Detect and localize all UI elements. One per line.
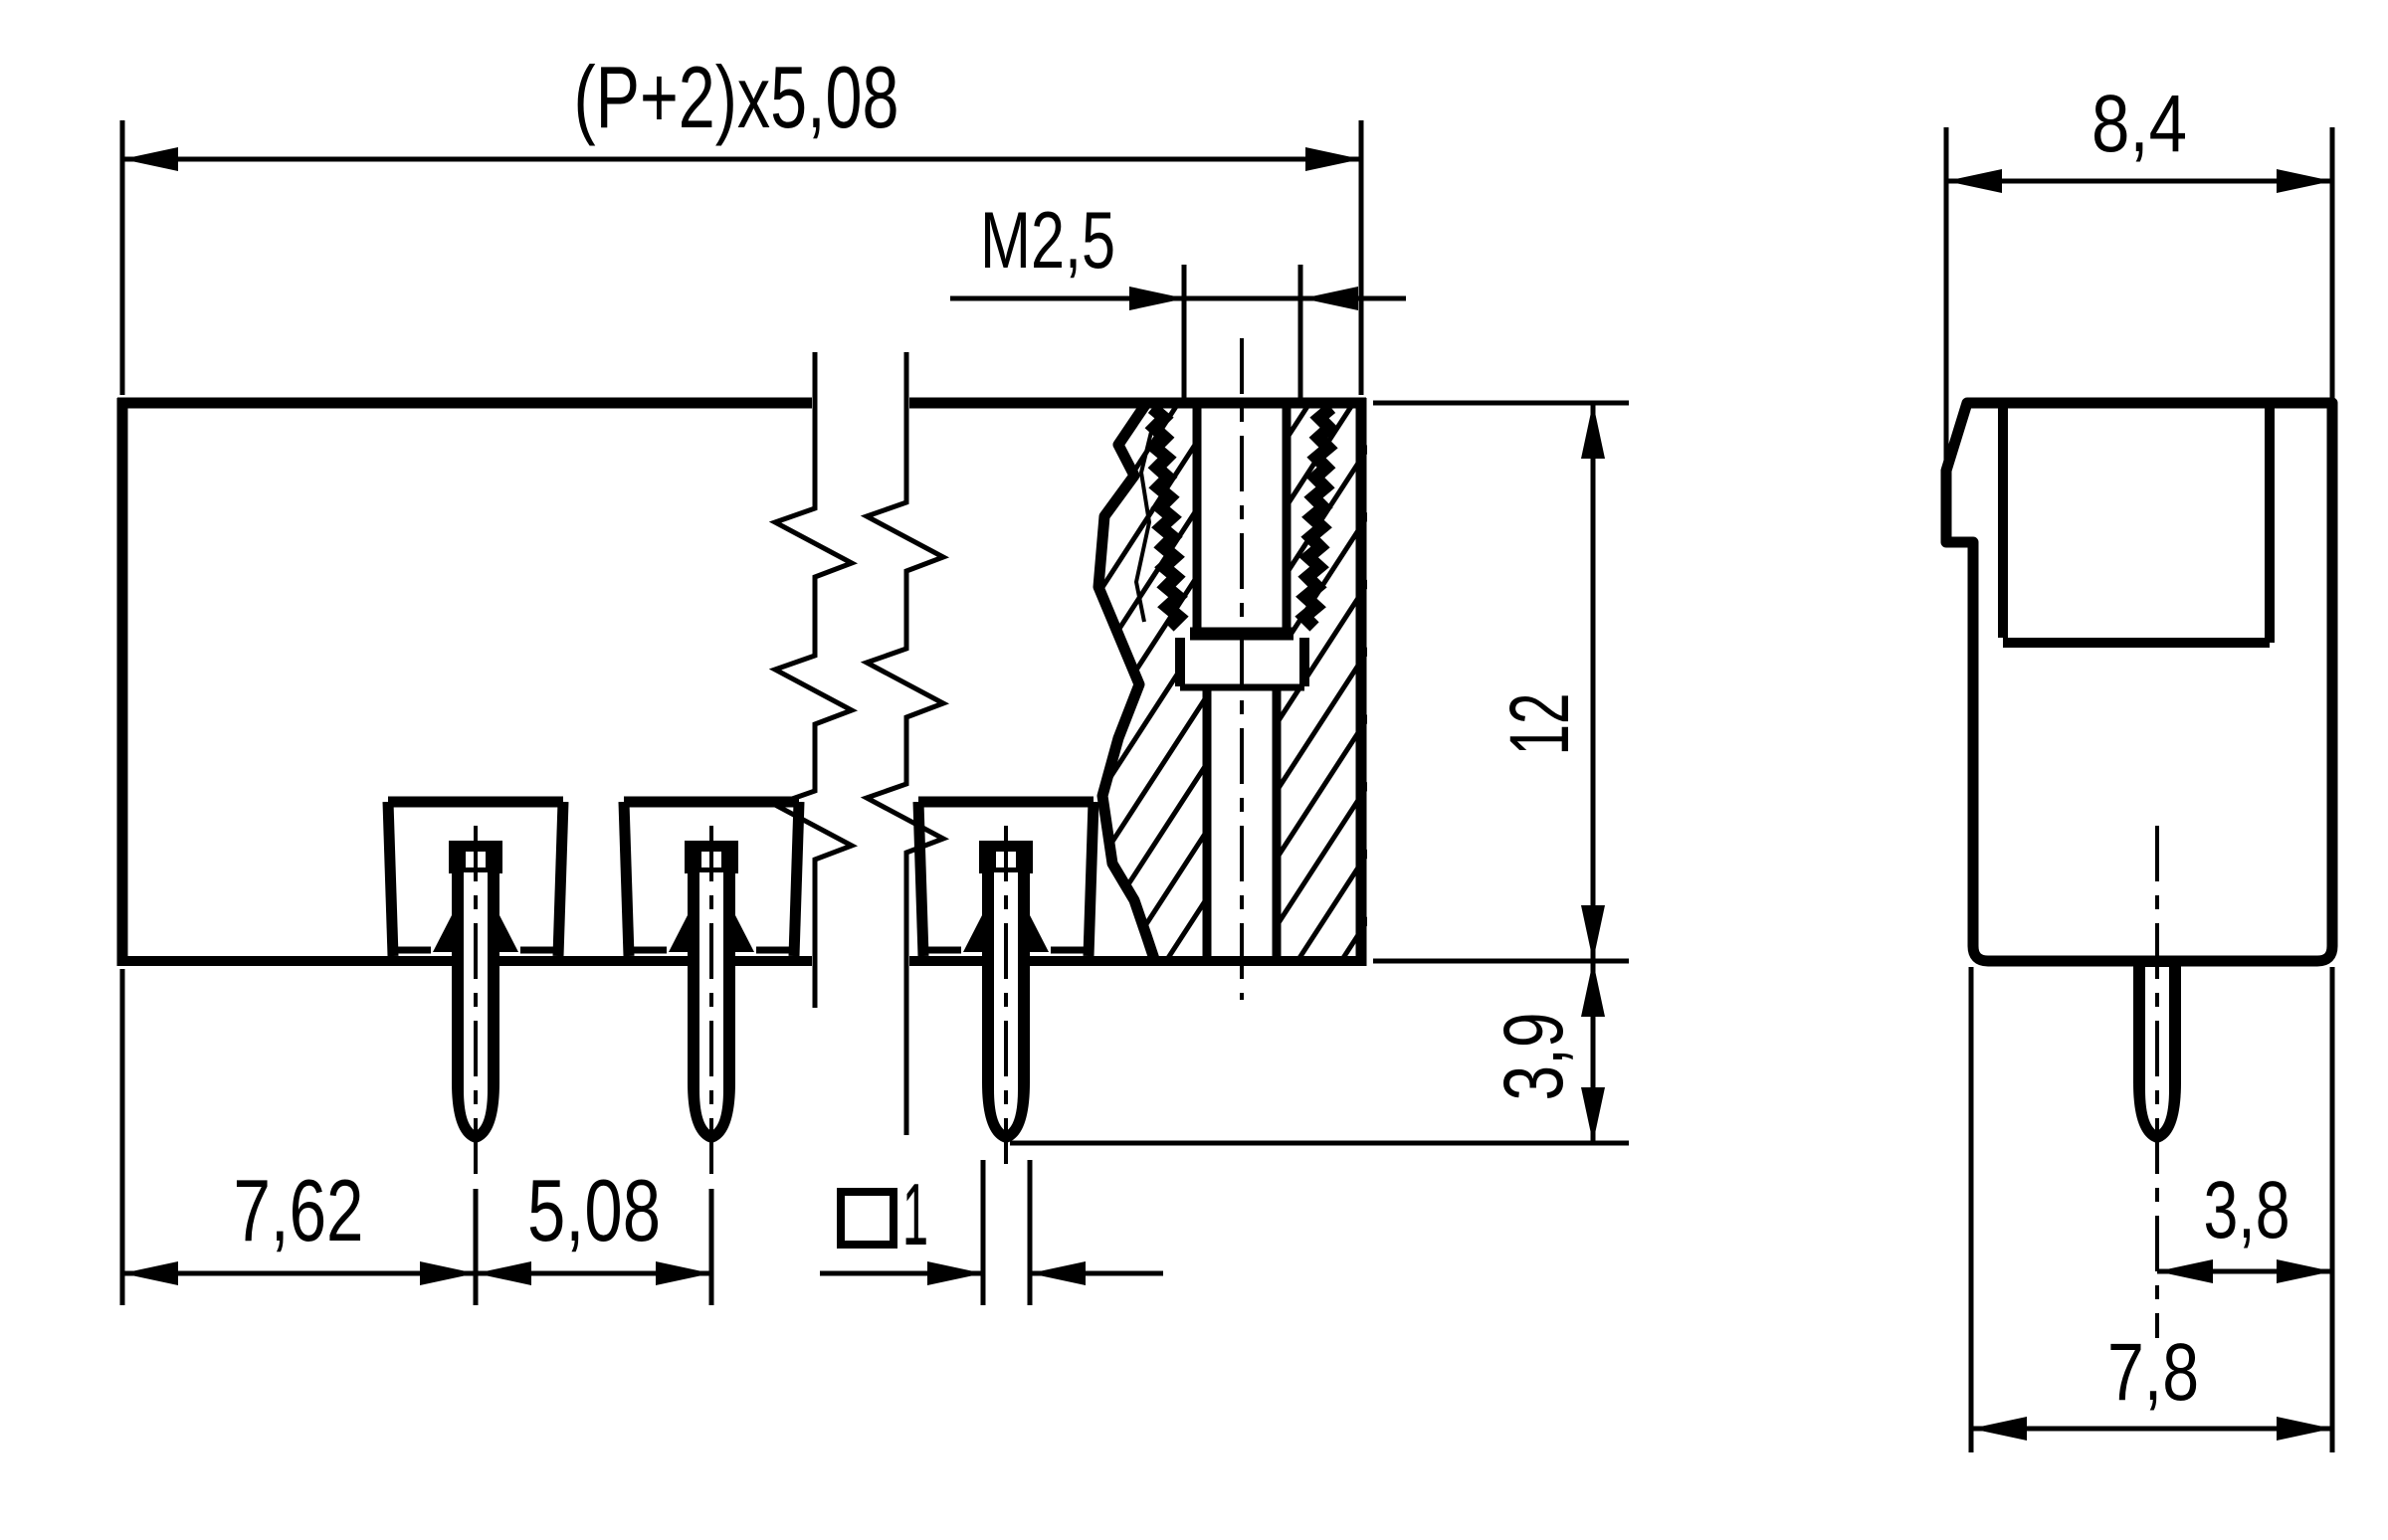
svg-text:8,4: 8,4 (2091, 79, 2187, 169)
svg-text:3,8: 3,8 (2204, 1165, 2290, 1255)
dimension square-1 pin cross-section (820, 1160, 1163, 1305)
pin socket cavity at x=478 (388, 797, 563, 808)
M2.5 threaded hole: serrated thread profile left (1152, 408, 1179, 627)
svg-text:7,8: 7,8 (2107, 1327, 2199, 1418)
dimension (P+2)x5,08 overall width (122, 48, 1361, 395)
dimension 3,9 pin protrusion (1010, 961, 1629, 1143)
dimension 5,08 pin pitch (476, 1161, 711, 1305)
dimension 7,62 first pin offset (122, 969, 476, 1305)
cylindrical hole below insert (1203, 687, 1212, 956)
svg-text:5,08: 5,08 (527, 1161, 661, 1259)
clamp insert body below thread (1175, 638, 1185, 686)
break line (right) (867, 352, 943, 1135)
solder pin (side view) (2133, 957, 2181, 1143)
connector body outline (front view) (117, 398, 1366, 966)
solder pin 3 (front view) (979, 841, 1033, 1143)
solder pin 1 (front view) (449, 841, 502, 1143)
mating plug recess (side view) (2003, 403, 2270, 643)
broken-out section boundary (jagged) (1098, 405, 1154, 959)
pin socket cavity at x=1011 (918, 797, 1094, 808)
bottom of threaded bore (1190, 628, 1293, 641)
dimension 3,8 pin to edge (2157, 967, 2332, 1452)
thread minor-bore walls (1193, 403, 1202, 633)
hole centerline (1240, 338, 1244, 1000)
svg-text:3,9: 3,9 (1487, 1013, 1580, 1101)
connector body outline (side view) (1946, 403, 2332, 961)
svg-text:1: 1 (902, 1165, 928, 1263)
dimension 8,4 overall depth (1946, 79, 2332, 466)
pin socket cavity at x=715 (624, 797, 799, 808)
dimension 7,8 bottom width (1971, 967, 2332, 1452)
svg-text:(P+2)x5,08: (P+2)x5,08 (574, 48, 899, 146)
svg-text:12: 12 (1492, 693, 1586, 756)
solder pin 2 (front view) (685, 841, 738, 1143)
dimension 12 body height (1373, 403, 1629, 961)
M2.5 threaded hole: serrated thread profile right (1304, 408, 1331, 627)
dimension M2,5 thread size (950, 196, 1406, 402)
svg-text:M2,5: M2,5 (980, 196, 1115, 286)
break line (left) (775, 352, 852, 1008)
svg-text:7,62: 7,62 (234, 1161, 364, 1259)
